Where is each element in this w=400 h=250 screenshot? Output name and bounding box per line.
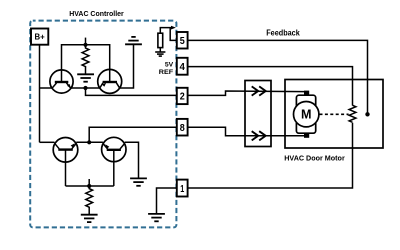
wire R2 bottom to ground	[159, 48, 161, 52]
ground G6	[130, 178, 147, 185]
motor M1	[294, 91, 319, 138]
HVAC Controller dashed enclosure	[30, 21, 176, 228]
wire R1 to ground	[85, 67, 87, 75]
wire drop into pin 5	[170, 28, 176, 41]
resistor R3 (zigzag)	[86, 186, 93, 208]
transistor Q3 (bottom-left)	[53, 138, 78, 163]
potentiometer (zigzag)	[349, 105, 356, 122]
5V REF wire pin 4 to potentiometer	[188, 67, 353, 106]
chevrons top pair	[252, 86, 266, 95]
emitter rail Q1-Q2	[71, 87, 100, 89]
feedback wire pin 5 to wiper	[188, 40, 368, 114]
wire Q3 to Q4	[76, 141, 103, 143]
transistor Q4 (bottom-right)	[102, 137, 126, 161]
HVAC Door Motor enclosure	[285, 80, 383, 149]
transistor Q2 (top-right PNP)	[98, 69, 122, 93]
svg-text:1: 1	[180, 184, 184, 195]
svg-text:4: 4	[180, 62, 186, 73]
connector box	[245, 81, 271, 147]
ground G1	[77, 74, 94, 81]
pin 4	[177, 58, 188, 75]
wire Q4 to ground G6	[125, 142, 139, 178]
svg-text:8: 8	[180, 123, 185, 134]
svg-text:REF: REF	[159, 69, 173, 76]
svg-text:Feedback: Feedback	[266, 29, 300, 38]
top collector rail	[62, 45, 110, 82]
B+ terminal box	[31, 29, 48, 45]
pin 1	[177, 180, 188, 197]
wire between base leads	[66, 185, 114, 187]
chevrons bottom pair	[252, 131, 266, 140]
Q4 base lead down	[113, 150, 115, 186]
lower rail from B+ to Q3	[40, 141, 55, 143]
wire B+ branch to Q1 emitter rail	[40, 87, 53, 89]
Q3 base lead down	[65, 150, 67, 186]
mechanical link (dashed) motor to wiper	[320, 113, 349, 115]
wire Q2 to inverted ground	[119, 44, 133, 88]
arrow into controller boundary	[171, 26, 176, 30]
node: wiper terminal dot	[365, 112, 369, 116]
node: lower rail junction	[87, 140, 91, 144]
wire R3 to ground	[88, 207, 90, 214]
svg-text:2: 2	[180, 92, 185, 103]
wire pin 1 left to ground G5	[157, 188, 177, 214]
resistor R1 (zigzag)	[82, 45, 89, 68]
resistor R1 top stub	[85, 38, 87, 45]
wire potentiometer bottom to pin 1	[188, 123, 353, 188]
wire branch down to pin 2	[86, 88, 177, 95]
svg-text:B+: B+	[35, 33, 46, 42]
resistor R2 (box style)	[158, 33, 163, 47]
ground G4	[81, 215, 98, 222]
svg-text:HVAC Door Motor: HVAC Door Motor	[284, 154, 345, 163]
resistor R3 top stub	[88, 179, 90, 186]
ground G5	[148, 214, 165, 221]
node: emitter rail junction	[83, 86, 87, 90]
pin 2	[177, 88, 188, 104]
svg-text:5: 5	[180, 36, 185, 47]
wire B+ down to lower rail	[39, 45, 41, 143]
transistor Q1 (top-left NPN)	[50, 70, 73, 93]
pin 8	[177, 119, 188, 136]
wire pin 8 to motor (bottom)	[188, 127, 305, 136]
svg-text:HVAC Controller: HVAC Controller	[69, 9, 124, 18]
wire R2 top to arrow and pin 5	[160, 28, 171, 34]
pin 5	[177, 32, 188, 49]
node: R3 junction	[87, 184, 91, 188]
node: rail / R1 junction	[83, 43, 87, 47]
svg-text:5V: 5V	[165, 62, 174, 69]
svg-text:M: M	[301, 108, 312, 122]
wire pin 2 to motor (top)	[188, 91, 305, 95]
ground G2 (inverted)	[125, 37, 142, 44]
ground G3 (small)	[155, 52, 165, 56]
wire branch up to pin 8	[89, 127, 176, 142]
